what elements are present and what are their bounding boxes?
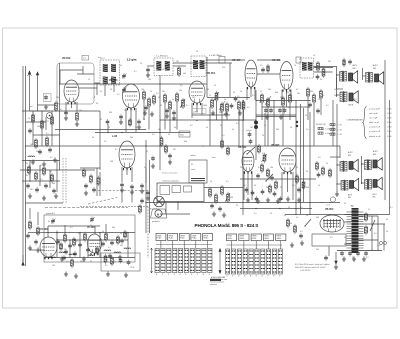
svg-text:VB 434: VB 434 (207, 72, 216, 75)
svg-text:12 W: 12 W (130, 267, 134, 269)
wire vertical bus x256 (255, 90, 257, 160)
svg-text:1k: 1k (344, 237, 346, 239)
potentiometer P1 (182, 100, 185, 107)
FM dots3 (47, 232, 48, 233)
resistor R39 (267, 170, 270, 176)
wire psu right verticals (371, 216, 373, 251)
svg-text:1,2 g/m: 1,2 g/m (127, 58, 137, 62)
svg-text:25: 25 (344, 203, 346, 205)
mech link diagonal (88, 198, 117, 205)
svg-text:20: 20 (110, 89, 112, 91)
svg-text:805: 805 (353, 68, 356, 70)
svg-text:2k: 2k (206, 127, 208, 129)
legend brace (363, 107, 367, 139)
wire bus y214 (285, 214, 390, 216)
svg-text:50: 50 (322, 95, 324, 97)
ground G5 (75, 122, 79, 127)
svg-text:0,1: 0,1 (244, 185, 247, 187)
svg-text:L.03: L.03 (112, 135, 118, 138)
wire into FM box (29, 208, 31, 219)
FM coil L4 (104, 250, 111, 251)
svg-text:1k: 1k (294, 65, 296, 67)
wire vertical bus x303 (303, 108, 305, 202)
wire top connects (206, 59, 245, 61)
svg-text:0,2: 0,2 (247, 107, 250, 109)
svg-text:0,1: 0,1 (104, 141, 107, 143)
svg-text:20: 20 (236, 205, 238, 207)
resistor R29 (129, 120, 132, 125)
svg-text:25: 25 (214, 85, 216, 87)
svg-text:500k: 500k (180, 134, 184, 136)
capacitor C30 (256, 175, 260, 176)
resistor R34 (221, 187, 224, 194)
svg-text:5 000: 5 000 (387, 113, 392, 115)
wire vertical bus x160 (159, 75, 161, 170)
svg-text:50: 50 (224, 99, 226, 101)
resistor R27 (313, 95, 316, 102)
FM resistor R64 (60, 244, 63, 249)
wire speakers2 (336, 150, 338, 192)
wire x265 (264, 113, 266, 146)
resistor R57 (364, 214, 367, 220)
wire left mid horizontals (22, 160, 60, 162)
svg-text:25: 25 (90, 261, 92, 263)
potentiometer P5 (219, 101, 225, 110)
svg-text:50: 50 (320, 79, 322, 81)
svg-text:0,1: 0,1 (252, 95, 255, 97)
svg-text:50: 50 (305, 115, 307, 117)
svg-text:0,1: 0,1 (186, 105, 189, 107)
caps under bus (340, 253, 344, 254)
svg-text:0,5: 0,5 (318, 157, 321, 159)
FM wires (44, 232, 135, 234)
FM coil L7 (49, 257, 56, 258)
legend circle bottom (330, 197, 335, 202)
wire vertical bus x146 (145, 140, 147, 233)
svg-text:50: 50 (233, 92, 235, 94)
small box label (179, 131, 190, 137)
tuning gang dashed (62, 158, 64, 203)
ground G13 (151, 164, 155, 169)
capacitor C17 (278, 110, 282, 111)
wire y100 right (256, 100, 310, 102)
resistor R16 (221, 104, 224, 111)
wire vertical bus x296 (295, 100, 297, 214)
svg-text:2k: 2k (196, 51, 198, 53)
ground G1 (31, 160, 35, 165)
svg-text:805: 805 (373, 154, 376, 156)
valve table right grid (226, 249, 230, 274)
svg-text:0,1: 0,1 (222, 135, 225, 137)
ground G17 (286, 197, 290, 202)
svg-text:50k: 50k (80, 261, 83, 263)
svg-text:100k: 100k (203, 105, 207, 107)
capacitor C24 (120, 184, 124, 185)
speaker A.P.2 (373, 158, 382, 170)
resistor R30 (160, 138, 163, 145)
svg-text:50: 50 (290, 127, 292, 129)
svg-text:5k: 5k (100, 91, 102, 93)
resistor R13 (169, 102, 172, 109)
box under rectifier (312, 234, 346, 246)
svg-text:tensioni a massa 0,5: tensioni a massa 0,5 (162, 172, 178, 175)
svg-text:100: 100 (148, 79, 151, 81)
wire x100 drop (99, 111, 101, 170)
capacitor C33 (251, 192, 255, 193)
wire left supply bus (22, 66, 24, 266)
bus under transformer (337, 250, 382, 252)
wire V3 pins (191, 103, 193, 118)
svg-text:300: 300 (276, 129, 279, 131)
svg-text:50: 50 (48, 221, 50, 223)
resistor R1 (55, 103, 58, 110)
ground G9 (165, 114, 169, 119)
capacitor C34 (261, 191, 265, 192)
svg-text:50: 50 (262, 135, 264, 137)
svg-text:0,1: 0,1 (70, 227, 73, 229)
tube VB 995 (279, 148, 296, 172)
wire y179 (240, 178, 316, 180)
jack dark J2 (254, 121, 258, 125)
wire antenna coil links (26, 121, 46, 123)
svg-text:A.P.5: A.P.5 (352, 98, 356, 101)
wire speakers1 (336, 66, 338, 97)
capacitor C22 (151, 158, 155, 159)
resistor R20 (261, 95, 264, 102)
tube VB 428 (280, 62, 293, 90)
svg-text:5 000: 5 000 (387, 136, 392, 138)
trimmer C7 (122, 89, 126, 90)
svg-text:300: 300 (275, 92, 278, 94)
resistor R28 (320, 91, 323, 98)
capacitor C35 (273, 193, 277, 194)
svg-text:= 1 W: = 1 W (337, 129, 342, 131)
capacitor C52 (26, 235, 30, 236)
svg-text:0,5: 0,5 (152, 134, 155, 136)
svg-text:GRIG.: GRIG. (227, 238, 232, 240)
IF transformer T4 (300, 58, 314, 78)
svg-text:5k: 5k (168, 134, 170, 136)
output transformer T5c (340, 91, 347, 102)
capacitor C44 (44, 185, 48, 186)
FM coil L2 (59, 252, 66, 253)
FM capacitor C56 (64, 251, 68, 252)
resistor R14 (176, 94, 179, 101)
svg-text:1k: 1k (172, 99, 174, 101)
svg-text:e V.B. 428-431: e V.B. 428-431 (300, 270, 311, 272)
svg-text:VB 954: VB 954 (325, 208, 334, 211)
resistor R19 (242, 102, 245, 109)
box gram section (157, 183, 204, 202)
svg-text:805: 805 (373, 196, 376, 198)
svg-text:0,5: 0,5 (326, 105, 329, 107)
svg-text:1k: 1k (368, 209, 370, 211)
switch arrow psu (370, 220, 375, 231)
coupling caps on bus (255, 198, 259, 199)
svg-text:0,5: 0,5 (105, 265, 108, 267)
svg-text:50: 50 (28, 118, 30, 120)
tube VC 900 (40, 237, 57, 257)
FM resistor R65 (96, 248, 99, 253)
speaker A.P.2 (375, 72, 384, 84)
svg-text:300: 300 (310, 91, 313, 93)
svg-text:0,1: 0,1 (50, 157, 53, 159)
tube L.03 (119, 141, 135, 168)
motor M (151, 209, 168, 218)
svg-text:PLAC.: PLAC. (192, 237, 197, 240)
capacitor C3 (38, 151, 42, 152)
svg-text:1k: 1k (318, 185, 320, 187)
resistor R59 (139, 206, 142, 212)
wire x337 upper (336, 104, 338, 150)
svg-text:100: 100 (230, 197, 233, 199)
svg-text:5k: 5k (102, 231, 104, 233)
svg-text:T.T.: T.T. (83, 58, 86, 60)
resistor R52 (35, 173, 38, 179)
FM capacitor C41 (120, 240, 124, 241)
svg-text:5 000: 5 000 (387, 122, 392, 124)
ground G11 (265, 115, 269, 120)
potentiometer P4 (263, 155, 266, 161)
svg-text:25: 25 (378, 245, 380, 247)
wire vertical x207 (206, 57, 208, 97)
svg-text:0,5: 0,5 (180, 85, 183, 87)
svg-text:330: 330 (109, 112, 112, 114)
capacitor C32 (245, 189, 249, 190)
wire drops center band (209, 107, 211, 146)
dark label under right table (210, 279, 221, 281)
IF transformer T2 (154, 58, 173, 76)
grounds left mid (28, 194, 32, 199)
svg-text:50: 50 (210, 181, 212, 183)
resistor R37 (227, 148, 230, 154)
svg-text:20: 20 (56, 231, 58, 233)
svg-text:50: 50 (92, 137, 94, 139)
svg-text:0,5: 0,5 (292, 185, 295, 187)
FM capacitor C54 (68, 245, 72, 246)
FM resistor R49 (105, 234, 108, 240)
svg-text:0,1: 0,1 (117, 94, 120, 96)
FM capacitor C40 (110, 242, 114, 243)
svg-text:50k: 50k (268, 89, 271, 91)
svg-text:1k: 1k (135, 127, 137, 129)
svg-text:300: 300 (130, 137, 133, 139)
wire y57 labels (147, 65, 154, 67)
FM resistor R47 (64, 235, 67, 241)
FM wire extra (48, 225, 100, 227)
resistor R3 (41, 121, 44, 128)
wire long bus y202 (146, 202, 340, 204)
wire bus y208 (240, 208, 312, 210)
svg-text:200: 200 (56, 97, 59, 99)
svg-text:5k: 5k (386, 231, 388, 233)
svg-text:20: 20 (146, 151, 148, 153)
svg-text:0,1: 0,1 (296, 217, 299, 219)
FM dashed box right (147, 207, 149, 259)
resistor R46 (329, 170, 332, 176)
capacitor C26 (210, 205, 214, 206)
svg-text:PHONOLA Modd. 895 S - 824: PHONOLA Modd. 895 S - 824 S (195, 223, 259, 228)
resistor R43 (302, 182, 305, 188)
ground G20 (28, 246, 32, 251)
tube VB 431 (242, 151, 254, 172)
FM resistor R62 (84, 234, 87, 240)
svg-text:PLAC.: PLAC. (169, 237, 174, 240)
wire V4 pins (246, 87, 248, 100)
wire bus y170 (20, 169, 95, 171)
capacitor C13 (172, 112, 176, 113)
svg-text:= 0,1: = 0,1 (326, 205, 330, 207)
capacitor C59 (84, 185, 88, 186)
wire bus y111 (22, 110, 100, 112)
tube pin nubs (248, 87, 255, 89)
wire bus y208 dots (255, 208, 256, 209)
capacitor C1 (44, 97, 48, 98)
svg-text:50k: 50k (36, 151, 39, 153)
wire gram to amp (204, 187, 243, 189)
ground G2 (42, 162, 46, 167)
wire vertical bus x389 (389, 100, 391, 214)
switch S4 (305, 219, 311, 226)
svg-text:300: 300 (226, 151, 229, 153)
antenna A1 (28, 71, 30, 111)
svg-text:2k: 2k (296, 167, 298, 169)
legend left resistor examples (330, 123, 335, 125)
node dots y132 (107, 132, 108, 133)
resistor R9 (143, 92, 146, 99)
dark node pair (296, 121, 298, 123)
junction dots (59, 83, 60, 84)
wire top bus y84 (60, 83, 207, 85)
capacitor C19 (308, 104, 312, 105)
FM dots (56, 232, 57, 233)
tube VB 954 (320, 215, 344, 232)
svg-text:25: 25 (270, 213, 272, 215)
wire V5 pins (281, 90, 283, 101)
IF transformer T3 (191, 56, 206, 77)
resistor R10 (148, 99, 151, 106)
ground G10 (211, 111, 215, 116)
wire left mid verticals (29, 160, 31, 182)
capacitor C4 (48, 149, 52, 150)
svg-text:5k: 5k (259, 102, 261, 104)
svg-text:1k: 1k (240, 91, 242, 93)
svg-text:0,5: 0,5 (66, 261, 69, 263)
resistor R38 (261, 165, 264, 171)
svg-text:PLAC.: PLAC. (203, 237, 208, 240)
svg-text:5k: 5k (284, 215, 286, 217)
resistor R24 (317, 63, 320, 70)
capacitor C58 (261, 69, 265, 70)
capacitor C42 (26, 185, 30, 186)
capacitor C9 (144, 107, 148, 108)
resistor R26 (307, 89, 310, 96)
wire horizontal links center (192, 114, 230, 116)
ground G16 (246, 198, 250, 203)
svg-text:25: 25 (140, 63, 142, 65)
capacitor C8 (146, 69, 150, 70)
svg-text:100: 100 (141, 89, 144, 91)
svg-text:GRIG.: GRIG. (277, 238, 282, 240)
capacitor C15 (234, 98, 238, 99)
wire y107 right (262, 106, 310, 108)
wire to speaker group1 (336, 77, 338, 89)
svg-text:giradischi: giradischi (152, 221, 160, 223)
svg-text:50: 50 (290, 223, 292, 225)
FM coil L3 (69, 254, 76, 255)
resistor R33 (215, 195, 218, 202)
svg-text:50: 50 (100, 239, 102, 241)
FM coil L5 (114, 252, 121, 253)
output transformer T5 (340, 71, 347, 82)
IF can T1 oscillator (100, 60, 120, 85)
wire x274 (273, 100, 275, 146)
svg-text:= 1 W: = 1 W (337, 125, 342, 127)
svg-text:50: 50 (120, 233, 122, 235)
svg-text:f₂ = 470 kc/s: f₂ = 470 kc/s (156, 56, 168, 58)
wire y168 (80, 167, 100, 169)
resistor R2 (32, 115, 35, 122)
capacitor C60 (92, 189, 96, 190)
coil L1a (28, 156, 35, 157)
svg-text:50k: 50k (179, 90, 182, 92)
wire antenna coupling (30, 110, 50, 112)
svg-text:200: 200 (37, 126, 40, 128)
wire vertical bus x59 (59, 63, 61, 170)
svg-text:300: 300 (52, 183, 55, 185)
box gram inner2 (172, 186, 181, 193)
capacitor C45 (52, 190, 56, 191)
capacitor C27 (218, 208, 222, 209)
FM wire verticals (56, 233, 58, 258)
resistor R58 (364, 227, 367, 233)
wire y116 (256, 116, 296, 118)
switch S3 (266, 174, 273, 181)
svg-text:Complesso fonografico: Complesso fonografico (162, 180, 179, 183)
small box top2 (296, 57, 301, 63)
resistor R69 (97, 178, 100, 184)
svg-text:0,5: 0,5 (342, 95, 345, 97)
capacitor C18 (316, 76, 320, 77)
FM small caps bottom (73, 253, 77, 254)
capacitor C21 (106, 121, 110, 122)
svg-text:0,1: 0,1 (258, 167, 261, 169)
capacitor C36 (297, 189, 301, 190)
svg-text:VB 428: VB 428 (272, 59, 281, 62)
resistor R22 (282, 98, 285, 105)
resistor R60 (29, 222, 32, 228)
svg-text:1k: 1k (150, 91, 152, 93)
svg-text:al F.M.: al F.M. (193, 111, 199, 113)
svg-text:1k: 1k (326, 163, 328, 165)
resistor R5 (35, 140, 38, 147)
dashed link y190 (98, 190, 148, 192)
speaker A.P.1 (349, 71, 358, 83)
ground G6 (143, 111, 147, 116)
svg-text:2k: 2k (334, 95, 336, 97)
resistor R53 (43, 168, 46, 174)
svg-text:0,1: 0,1 (115, 149, 118, 151)
svg-text:0,5: 0,5 (330, 237, 333, 239)
svg-text:0,1: 0,1 (236, 123, 239, 125)
svg-text:0,5: 0,5 (76, 241, 79, 243)
capacitor C20 (316, 110, 320, 111)
resistor R25 (322, 69, 325, 76)
svg-text:0,1: 0,1 (390, 207, 393, 209)
node x243 (242, 145, 243, 146)
svg-text:0,1: 0,1 (156, 93, 159, 95)
capacitor C50 (146, 192, 150, 193)
